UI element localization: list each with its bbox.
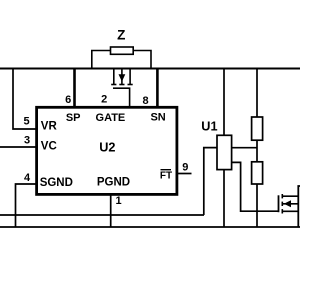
wire PGND pin1 to lower rail [110, 194, 112, 227]
wire U1 gate-drive pin to Q1 gate [232, 162, 279, 211]
wire Q1 drain stub and source to lower rail [298, 186, 300, 227]
wire lower ground rail [0, 226, 300, 228]
svg-text:9: 9 [182, 161, 188, 173]
wire FT pin9 stub [177, 173, 192, 175]
wire M1 gate to pin2 [113, 88, 130, 107]
svg-text:4: 4 [24, 172, 31, 184]
transistor Q1 channel bars [282, 194, 298, 214]
wire zener Z right leg [133, 51, 151, 69]
svg-text:6: 6 [65, 94, 71, 106]
svg-text:VC: VC [41, 141, 57, 153]
wire SP pin6 to top rail [73, 69, 76, 108]
resistor R2 [252, 162, 263, 184]
wire SGND pin4 to lower rail [16, 184, 37, 227]
wire R2 bottom to lower rail [256, 184, 258, 227]
FT overline [161, 169, 172, 171]
transistor M1 arrow [119, 74, 126, 81]
svg-text:SN: SN [150, 112, 165, 124]
wire VR pin5 to top rail [13, 69, 37, 130]
svg-text:GATE: GATE [96, 112, 126, 124]
svg-text:3: 3 [24, 134, 30, 146]
component U1 body [217, 135, 232, 169]
wire U1 bottom to lower rail [223, 170, 225, 227]
wire VC pin3 stub [0, 146, 37, 148]
wire U1 left pin to upper rail [204, 148, 217, 215]
svg-text:5: 5 [23, 115, 29, 127]
op-amp U2 body [37, 107, 177, 194]
svg-text:SP: SP [66, 112, 81, 124]
transistor Q1 body arrow [284, 200, 291, 207]
wire upper ground rail [0, 214, 204, 216]
resistor R1 [252, 117, 263, 140]
wire R1 top to rail [256, 69, 258, 118]
component Z body [111, 47, 134, 54]
svg-text:2: 2 [101, 93, 107, 105]
svg-text:SGND: SGND [40, 177, 73, 189]
wire zener Z left leg [92, 51, 111, 69]
svg-text:1: 1 [115, 195, 121, 207]
svg-text:U1: U1 [201, 119, 217, 133]
svg-text:8: 8 [142, 95, 148, 107]
wire U1 right pin to resistor junction [232, 147, 257, 149]
wire SN pin8 to top rail [156, 69, 159, 108]
wire main top rail [0, 68, 300, 70]
transistor M1 (sense FET at GATE pin) [111, 69, 133, 85]
svg-text:VR: VR [41, 120, 58, 132]
svg-text:FT: FT [160, 171, 172, 182]
wire U1 top to rail [223, 69, 225, 136]
wire R1 to R2 [256, 140, 258, 162]
transistor Q1 gate line [278, 195, 280, 212]
svg-text:PGND: PGND [97, 177, 130, 189]
svg-text:U2: U2 [99, 141, 115, 155]
svg-text:Z: Z [117, 28, 125, 43]
